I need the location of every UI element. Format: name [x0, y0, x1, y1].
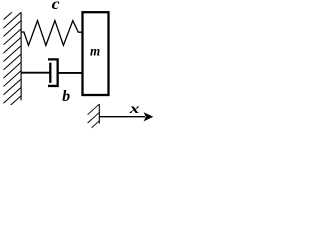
- svg-text:m: m: [90, 45, 100, 60]
- svg-text:x: x: [128, 101, 139, 116]
- svg-text:c: c: [52, 0, 60, 13]
- svg-text:b: b: [62, 88, 70, 105]
